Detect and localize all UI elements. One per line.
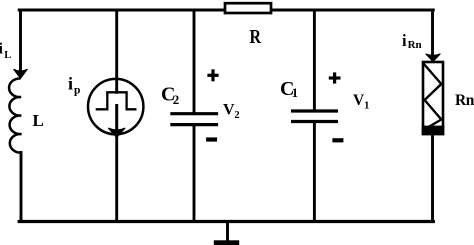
svg-text:R: R [250, 26, 262, 48]
svg-text:V: V [223, 102, 235, 119]
memristor black bar [422, 126, 445, 136]
wire bottom [19, 220, 433, 223]
resistor R1 box [225, 3, 271, 13]
wire right lower [431, 133, 434, 222]
svg-text:p: p [74, 85, 80, 97]
svg-text:2: 2 [234, 110, 239, 121]
svg-text:1: 1 [292, 85, 299, 100]
svg-text:L: L [4, 50, 11, 61]
svg-text:1: 1 [364, 101, 369, 112]
svg-text:Rn: Rn [408, 39, 422, 51]
wire top [19, 9, 433, 12]
source arrow line [115, 104, 118, 132]
capacitor C2 plates [170, 112, 218, 115]
current arrow iL on left wire [14, 69, 28, 78]
wire left upper [19, 10, 22, 74]
wire C2 top [193, 10, 196, 113]
pulse current source ip: circle [88, 79, 143, 134]
pulse waveform symbol [96, 92, 137, 109]
minus sign V1 [332, 138, 343, 142]
plus sign V2 [207, 69, 218, 81]
plus sign V1 [329, 72, 341, 83]
minus sign V2 [206, 137, 217, 141]
wire ground stem [226, 222, 229, 241]
memristor zigzag [424, 64, 442, 128]
svg-text:2: 2 [173, 92, 180, 107]
svg-text:i: i [402, 31, 407, 50]
svg-text:n: n [466, 92, 474, 109]
wire left lower [20, 153, 23, 222]
capacitor C1 plates [291, 109, 338, 112]
memristor Rn box [423, 62, 443, 134]
source arrowhead [108, 128, 125, 138]
wire C1 top [313, 10, 316, 111]
current arrow iRn [426, 54, 441, 62]
ground bar [214, 240, 239, 245]
wire pulse-source top [115, 10, 118, 92]
wire right upper [431, 10, 434, 56]
wire C1 bottom [313, 122, 316, 222]
wire pulse-source bottom [115, 135, 118, 222]
inductor L [9, 78, 22, 152]
svg-text:i: i [68, 74, 73, 94]
svg-text:L: L [33, 111, 44, 130]
wire C2 bottom [193, 125, 196, 222]
